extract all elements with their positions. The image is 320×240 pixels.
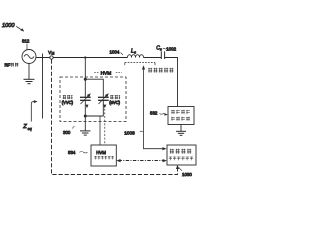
label 可変器 (VVC) left	[63, 95, 73, 99]
label HVM with dash	[94, 71, 122, 77]
svg-text:(VVC): (VVC)	[62, 100, 74, 105]
wire plasma box to ground	[180, 125, 182, 132]
svg-text:1002: 1002	[166, 46, 176, 51]
svg-text:(eVC): (eVC)	[109, 100, 120, 105]
tap wire from main line into HVM box	[84, 58, 86, 80]
matching controller box 1030	[167, 145, 196, 165]
variable capacitor C3 (eVC)	[98, 93, 109, 104]
stub line (Zeq measurement plane)	[42, 54, 44, 119]
control line solid from cap bottom wire to HVM controller	[99, 116, 101, 145]
wire main horizontal	[36, 57, 128, 59]
label 812	[22, 39, 30, 50]
junction bottom	[84, 115, 87, 118]
svg-text:M: M	[52, 51, 55, 55]
label 可変器 (eVC) right	[110, 95, 120, 99]
HVM dashed box	[60, 77, 126, 122]
svg-text:300: 300	[63, 130, 71, 135]
dash-dot double arrow between controllers	[116, 159, 166, 162]
node VM	[48, 50, 54, 59]
capacitor C1 (Cs) plates	[161, 51, 164, 59]
wire bottom junction to ground	[84, 116, 86, 131]
label Cs ~ 1002	[156, 46, 176, 52]
dashed brace under LC (tuning section)	[125, 63, 155, 66]
label 1004 with tick	[110, 50, 124, 56]
control line dashed from eVC to HVM controller	[104, 109, 106, 145]
ground (plasma)	[176, 131, 186, 135]
wire after inductor to cap	[144, 57, 162, 59]
svg-text:1030: 1030	[182, 172, 192, 177]
svg-text:812: 812	[22, 39, 30, 44]
label 300 with tilde	[63, 126, 75, 135]
HVM controller box 834	[91, 145, 116, 166]
plasma chamber box 832	[168, 107, 194, 125]
ground (source)	[24, 79, 35, 83]
arrow mark below eVC	[103, 105, 106, 109]
label 1030 with tick	[179, 168, 193, 178]
wire top junction to right branch	[85, 79, 103, 97]
svg-text:832: 832	[150, 111, 158, 116]
variable capacitor C2 (VVC)	[80, 93, 91, 104]
label 834 with tilde	[68, 150, 88, 155]
wire eVC down and to bottom junction	[85, 101, 103, 116]
label 1000 with leader arrow	[2, 23, 24, 32]
label 1008 with tilde	[124, 130, 143, 135]
RF source U1 (circle with sine)	[22, 50, 36, 64]
Zeq arrow	[22, 100, 37, 131]
wire cap to corner, down to plasma chamber	[165, 58, 178, 107]
svg-text:HVM: HVM	[96, 150, 106, 155]
dashed measurement line VM to controller 1030	[52, 60, 178, 175]
svg-text:1000: 1000	[2, 23, 15, 29]
wire source to ground	[28, 64, 30, 80]
wire top junction down to left cap	[84, 79, 86, 97]
svg-text:HVM: HVM	[101, 71, 112, 77]
label 高周波調整 (5 glyphs)	[148, 68, 173, 73]
label 832 with arrow	[150, 111, 168, 116]
ground (HVM)	[80, 131, 91, 135]
arrow mark below VVC	[86, 105, 89, 109]
inductor L1 (Ls)	[128, 49, 144, 58]
svg-text:834: 834	[68, 150, 76, 155]
svg-text:s: s	[134, 51, 136, 55]
svg-text:1004: 1004	[110, 50, 120, 55]
junction top	[84, 78, 87, 81]
svg-text:s: s	[160, 48, 162, 52]
svg-text:RF: RF	[5, 63, 11, 68]
wire VVC to bottom junction	[84, 101, 86, 116]
arrow up to brace + control line down to matching controller	[142, 65, 167, 150]
arrowhead into controller bottom	[176, 165, 179, 169]
label RF電源	[5, 63, 19, 68]
svg-text:1008: 1008	[124, 130, 135, 135]
svg-text:Z: Z	[22, 124, 27, 130]
